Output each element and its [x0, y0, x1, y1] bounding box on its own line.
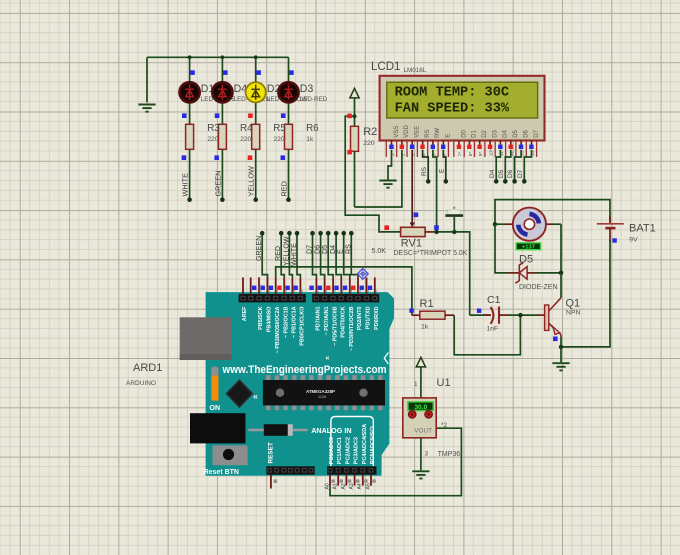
- svg-text:A1: A1: [333, 483, 339, 489]
- wire net RS to Arduino pin: [349, 231, 358, 278]
- svg-text:D4: D4: [489, 169, 496, 178]
- svg-text:PC5/ADC5/SCL: PC5/ADC5/SCL: [370, 424, 376, 464]
- net label D4 (Arduino side): [329, 245, 337, 254]
- white bracket around analog header: [331, 417, 373, 467]
- LED D4 LED-GREEN label: [234, 83, 271, 103]
- wire R2 bottom to VDD rail: [354, 151, 356, 207]
- svg-text:A5: A5: [365, 483, 371, 489]
- svg-text:ROOM TEMP: 30C: ROOM TEMP: 30C: [395, 85, 510, 101]
- svg-text:8*: 8*: [468, 152, 474, 157]
- pin stub top left x=292.4 9: [285, 277, 296, 294]
- net label RS (Arduino side): [344, 244, 352, 254]
- svg-text:10*: 10*: [489, 149, 495, 156]
- svg-text:LED-RED: LED-RED: [300, 96, 328, 103]
- analog pin stub A3: [349, 475, 359, 490]
- U1 pin3 wire to ground: [420, 438, 422, 471]
- pin stub top left x=243.0: [242, 277, 244, 294]
- LCD pin 13 D6: [519, 129, 530, 156]
- power jack: [190, 413, 246, 443]
- LCD pin 7 D0: [457, 129, 468, 156]
- wire net YELLOW to Arduino pin: [287, 231, 292, 278]
- svg-text:LM016L: LM016L: [404, 67, 427, 74]
- svg-text:U1: U1: [437, 377, 451, 389]
- svg-text:1k: 1k: [421, 323, 429, 330]
- svg-text:DIODE-ZEN: DIODE-ZEN: [519, 284, 558, 291]
- svg-text:5: 5: [332, 290, 338, 293]
- svg-text:RS: RS: [425, 129, 431, 137]
- svg-text:7: 7: [315, 290, 321, 293]
- logic marker below resistor R3: [182, 155, 187, 160]
- svg-text:D0: D0: [461, 129, 467, 137]
- LCD pin 14 D7: [529, 129, 540, 156]
- IC ATMEGA328P: [263, 375, 385, 410]
- wire R1 right to base node: [454, 315, 520, 355]
- wire LCD RS stub: [423, 150, 431, 184]
- pin stub top left x=275.7 11: [269, 277, 280, 294]
- logic marker below LED D3: [281, 113, 286, 118]
- power LED (orange): [211, 367, 218, 401]
- svg-text:Q1: Q1: [566, 298, 581, 310]
- svg-text:D5: D5: [519, 253, 533, 265]
- ARD1 labels: [126, 362, 162, 387]
- node D5 right junction: [559, 271, 564, 276]
- net label GREEN (Arduino side): [255, 236, 263, 261]
- svg-text:3: 3: [425, 451, 429, 458]
- black diamond decoration: [226, 380, 252, 407]
- ground-bar terminal above RV1 rail: [445, 207, 463, 232]
- svg-text:DESC=*TRIMPOT 5.0K: DESC=*TRIMPOT 5.0K: [394, 250, 468, 257]
- pin stub top left x=267.5 12: [261, 277, 272, 294]
- pin stub top left x=300.4 8: [293, 277, 304, 294]
- wire power node to RV1 left: [345, 116, 400, 232]
- net label D5 (Arduino side): [321, 245, 329, 254]
- node WHITE wire-end terminal: [187, 197, 192, 202]
- svg-text:PD7/AIN1: PD7/AIN1: [316, 307, 322, 331]
- svg-text:GREEN: GREEN: [255, 236, 263, 261]
- pin label PC2/ADC2: [345, 437, 351, 464]
- wire net E to Arduino pin: [341, 231, 349, 278]
- svg-text:VSS: VSS: [394, 126, 400, 138]
- pin stub top right x=358.0 2: [351, 277, 362, 294]
- svg-text:D3: D3: [492, 129, 498, 137]
- svg-text:RED: RED: [280, 181, 289, 196]
- Reset BTN label: [204, 469, 239, 476]
- net label WHITE (Arduino side): [290, 243, 298, 266]
- svg-text:PD0/RXD: PD0/RXD: [374, 306, 380, 329]
- wire net D7 to Arduino pin: [310, 231, 316, 278]
- LCD pin 11 D4: [498, 129, 509, 156]
- wire motor right riser: [560, 224, 562, 273]
- net label E (Arduino side): [337, 249, 345, 254]
- wire LCD D4 stub: [494, 150, 500, 184]
- svg-text:WHITE: WHITE: [181, 173, 190, 197]
- resistor R3 220: [186, 124, 194, 149]
- net label D6 (Arduino side): [314, 245, 322, 254]
- U1 pin2 label: [441, 422, 448, 429]
- pin stub top right x=349.8 3: [343, 277, 354, 294]
- pin header bottom-right (analog): [327, 466, 376, 474]
- svg-text:1126: 1126: [318, 395, 326, 399]
- svg-text:D7: D7: [517, 169, 524, 178]
- node junction power/R2/RV1: [353, 114, 357, 118]
- ground (top-left): [138, 57, 155, 111]
- logic marker battery: [612, 238, 616, 242]
- pin stub top right x=324.6 6: [318, 277, 329, 294]
- svg-text:ARDUINO: ARDUINO: [126, 380, 156, 387]
- RV1 labels: [372, 238, 468, 258]
- transistor Q1 NPN: [545, 298, 581, 338]
- svg-text:~ PD3/INT1/OC2B: ~ PD3/INT1/OC2B: [349, 306, 355, 351]
- wire net RED to Arduino pin: [279, 231, 284, 278]
- svg-text:«: «: [253, 391, 258, 401]
- LCD pin 2 VDD: [400, 124, 411, 156]
- svg-text:E: E: [446, 134, 452, 138]
- pin header top-left: [239, 294, 306, 302]
- svg-text:«: «: [326, 355, 330, 362]
- logic marker above LED D1: [190, 70, 195, 75]
- LED D3 LED-RED label: [300, 83, 328, 103]
- net label YELLOW (Arduino side): [282, 236, 290, 266]
- node RED wire-end terminal: [286, 197, 291, 202]
- ON label: [210, 405, 221, 412]
- pin label ~ PB2/OC1B: [283, 306, 289, 338]
- analog pin stub A0: [324, 475, 334, 490]
- svg-text:4: 4: [340, 290, 346, 293]
- svg-text:D5: D5: [498, 169, 505, 178]
- wire A0 to TMP36 pin2: [330, 428, 461, 496]
- analog pin stub A4: [357, 475, 367, 490]
- trimpot RV1 body: [401, 223, 426, 237]
- pin label ~ PD7/AIN1: [324, 307, 330, 336]
- labels for R4 and net GREEN: [213, 123, 253, 196]
- svg-text:E: E: [439, 168, 446, 173]
- pin label PD4/T0/XCK: [341, 306, 347, 337]
- logic marker below LED D2: [248, 113, 253, 118]
- labels for R6 and net RED: [280, 123, 320, 196]
- svg-text:GREEN: GREEN: [213, 171, 222, 197]
- wire LCD D6 stub: [512, 150, 521, 184]
- svg-text:PC2/ADC2: PC2/ADC2: [345, 437, 351, 464]
- pin header top-right: [312, 294, 379, 302]
- node junction on rail at YELLOW branch: [254, 55, 258, 59]
- LCD pin 6 E: [441, 134, 452, 157]
- pin stub top right x=374.8 0: [368, 277, 379, 294]
- node motor left junction: [493, 222, 497, 226]
- wire GREEN LED branch: [221, 57, 223, 199]
- svg-text:RESET: RESET: [267, 442, 274, 463]
- pin stub top left x=259.0 #13: [252, 277, 263, 294]
- svg-text:RS: RS: [421, 166, 428, 176]
- svg-text:D3: D3: [300, 83, 314, 95]
- svg-text:TMP36: TMP36: [438, 451, 461, 458]
- wire net D5 to Arduino pin: [326, 231, 333, 278]
- logic marker RV1 right: [434, 225, 439, 230]
- svg-text:VEE: VEE: [415, 126, 421, 138]
- svg-text:R4: R4: [240, 123, 253, 134]
- logic marker R2 bottom: [347, 150, 352, 155]
- wire motor leads: [495, 223, 561, 225]
- svg-text:PD1/TXD: PD1/TXD: [366, 306, 372, 329]
- LED D1 LED-WHITE label: [201, 83, 236, 103]
- pin stub top right x=333.1 5: [326, 277, 337, 294]
- svg-text:6: 6: [323, 290, 329, 293]
- svg-text:C1: C1: [487, 294, 501, 306]
- wire LCD VSS to ground: [388, 150, 392, 180]
- net label D7: [517, 169, 524, 178]
- svg-text:Reset BTN: Reset BTN: [204, 469, 239, 476]
- svg-text:~ PD7/AIN1: ~ PD7/AIN1: [324, 307, 330, 336]
- svg-text:PC0/ADC0: PC0/ADC0: [329, 437, 335, 464]
- LCD text line1 ROOM TEMP: 30C: [395, 85, 510, 101]
- svg-text:A4: A4: [357, 483, 363, 489]
- LED D3 LED-RED: [278, 82, 298, 102]
- pin label PD1/TXD: [366, 306, 372, 329]
- svg-text:0: 0: [373, 290, 379, 293]
- pin label AREF: [242, 306, 248, 321]
- svg-text:8: 8: [299, 290, 305, 293]
- logic marker RV1 wiper: [414, 213, 419, 218]
- wire net D6 to Arduino pin: [318, 231, 324, 278]
- ground (Q1 emitter): [552, 363, 569, 370]
- svg-text:*2: *2: [441, 422, 448, 429]
- pin label PB4/MISO: [267, 307, 273, 333]
- resistor R2 220: [351, 126, 378, 151]
- capacitor C1 1nF: [483, 294, 545, 333]
- wire emitter to ground: [560, 347, 562, 362]
- battery BAT1 9V: [597, 217, 656, 244]
- resistor R5 220: [252, 124, 260, 149]
- wire LCD D5 stub: [503, 150, 511, 184]
- svg-text:RV1: RV1: [401, 238, 422, 250]
- wire WHITE LED branch: [189, 57, 191, 199]
- analog pin stub A5: [365, 475, 375, 490]
- pin stub top left x=250.7: [250, 277, 252, 294]
- pin label PB0/CP1/CLKO: [300, 307, 306, 346]
- USB connector: [180, 317, 232, 360]
- ground (LCD VSS): [379, 181, 396, 188]
- pin label PC1/ADC1: [337, 437, 343, 464]
- svg-text:YELLOW: YELLOW: [247, 166, 256, 197]
- pin stub top right x=366.5 1: [360, 277, 371, 294]
- pin label PC0/ADC0: [329, 437, 335, 464]
- net label D6: [507, 169, 514, 178]
- resistor R6 1k: [285, 124, 293, 149]
- logic marker above LED D2: [256, 70, 261, 75]
- ground (TMP36): [412, 471, 429, 478]
- wire YELLOW LED branch: [255, 57, 257, 199]
- LCD pin 5 RW: [431, 128, 442, 157]
- LCD pin 10 D3: [488, 129, 499, 156]
- wire LCD VEE to RV1 wiper: [411, 150, 413, 223]
- svg-text:PC3/ADC3: PC3/ADC3: [354, 437, 360, 464]
- svg-text:D2: D2: [482, 129, 488, 137]
- LCD pin cell dividers: [386, 141, 536, 158]
- pin header bottom-left: [266, 466, 314, 474]
- wire top rail: [147, 56, 289, 58]
- Arduino ARD1 board: [206, 292, 394, 476]
- LED D4 LED-GREEN: [212, 82, 232, 102]
- chevron decoration mid: [326, 355, 330, 362]
- wire battery negative to emitter node: [561, 240, 610, 347]
- svg-text:220: 220: [207, 136, 218, 143]
- svg-text:D5: D5: [513, 129, 519, 137]
- net label D7 (Arduino side): [306, 245, 314, 254]
- logic marker above LED D3: [289, 70, 294, 75]
- logic marker emitter: [553, 337, 558, 342]
- diode D5 DIODE-ZEN: [507, 253, 561, 291]
- svg-text:PD4/T0/XCK: PD4/T0/XCK: [341, 306, 347, 337]
- LCD text line2 FAN SPEED: 33%: [395, 100, 510, 116]
- LCD pin 8 D1: [467, 129, 478, 156]
- logic marker below resistor R5: [248, 155, 253, 160]
- power arrow (TMP36 pin1): [416, 357, 425, 398]
- svg-text:D6: D6: [523, 129, 529, 137]
- net label E: [439, 168, 446, 173]
- reset button: [213, 445, 248, 465]
- svg-text:RW: RW: [435, 128, 441, 138]
- svg-text:1k: 1k: [306, 136, 314, 143]
- svg-text:R2: R2: [363, 126, 377, 138]
- svg-text:~ PB1/OC1A: ~ PB1/OC1A: [292, 306, 298, 338]
- svg-text:7*: 7*: [457, 152, 463, 157]
- LCD pin 12 D5: [509, 129, 520, 156]
- origin marker (blue diamond): [357, 268, 368, 279]
- wire motor top rail: [495, 200, 610, 225]
- wire RV1 rail to C1: [470, 314, 491, 316]
- svg-text:9V: 9V: [629, 236, 638, 243]
- logic marker above LED D4: [223, 70, 228, 75]
- svg-text:RED: RED: [274, 246, 282, 261]
- LCD pin 1 VSS: [389, 126, 400, 157]
- wire LCD E stub: [443, 150, 448, 184]
- www.TheEngineeringProjects.com: [222, 364, 387, 376]
- wire RV1 right rail: [425, 230, 470, 315]
- svg-text:2: 2: [356, 290, 362, 293]
- power terminal VCC arrow: [350, 88, 359, 116]
- svg-text:R1: R1: [420, 298, 434, 310]
- svg-text:PB0/CP1/CLKO: PB0/CP1/CLKO: [300, 307, 306, 346]
- sensor U1 TMP36 body: [403, 398, 436, 438]
- node YELLOW wire-end terminal: [253, 197, 258, 202]
- logic marker RV1 left wire: [384, 225, 389, 230]
- pin label ~ PB1/OC1A: [292, 306, 298, 338]
- wire LCD VDD to R2: [355, 150, 402, 207]
- wire net D4 to Arduino pin: [334, 231, 341, 278]
- labels for R3 and net WHITE: [181, 123, 221, 196]
- net label RED (Arduino side): [274, 246, 282, 261]
- wire RED LED branch: [288, 57, 290, 199]
- svg-text:30.0: 30.0: [414, 404, 427, 411]
- svg-text:PD2/INT0: PD2/INT0: [357, 307, 363, 331]
- svg-text:220: 220: [274, 136, 285, 143]
- net label D5: [498, 169, 505, 178]
- node base junction: [518, 313, 522, 317]
- pin label ~ PB3/MOSI/OC2A: [275, 306, 281, 353]
- pin stub top right x=341.3 4: [334, 277, 345, 294]
- LED D2 LED-YELLOW label: [267, 83, 308, 103]
- svg-text:FAN SPEED: 33%: FAN SPEED: 33%: [395, 100, 510, 116]
- LCD1 labels: [371, 61, 427, 74]
- motor (fan): [513, 208, 546, 241]
- wire net GREEN to Arduino pin: [260, 231, 268, 278]
- svg-text:9*: 9*: [478, 152, 484, 157]
- logic marker C1 left: [477, 309, 481, 313]
- svg-text:R6: R6: [306, 123, 319, 134]
- svg-text:www.TheEngineeringProjects.com: www.TheEngineeringProjects.com: [222, 364, 387, 376]
- LED D1 LED-WHITE: [180, 82, 200, 102]
- node GREEN wire-end terminal: [220, 197, 225, 202]
- node junction on rail at WHITE branch: [188, 55, 192, 59]
- pin stub top right x=316.4 7: [309, 277, 320, 294]
- svg-text:RS: RS: [344, 244, 352, 254]
- pin label PC3/ADC3: [354, 437, 360, 464]
- pin label PC5/ADC5/SCL: [370, 424, 376, 464]
- svg-text:1nF: 1nF: [487, 326, 499, 333]
- pin label PD0/RXD: [374, 306, 380, 329]
- LCD pin 9 D2: [477, 129, 488, 156]
- diode decoration on board: [248, 424, 307, 436]
- logic marker R2 top: [347, 114, 352, 119]
- svg-text:D7: D7: [534, 129, 540, 137]
- pin label ~ PD5/T1/OC0B: [332, 306, 338, 346]
- svg-text:ARD1: ARD1: [133, 362, 162, 374]
- net label D4: [489, 169, 496, 178]
- svg-text:R3: R3: [207, 123, 220, 134]
- svg-text:1: 1: [414, 381, 418, 388]
- svg-text:5.0K: 5.0K: [372, 248, 387, 255]
- svg-text:D7: D7: [306, 245, 314, 254]
- U1 pin1 number: [414, 381, 418, 388]
- svg-text:220: 220: [363, 140, 375, 147]
- svg-text:~ PB3/MOSI/OC2A: ~ PB3/MOSI/OC2A: [275, 306, 281, 353]
- chevron decoration right edge: [384, 353, 388, 364]
- svg-text:D6: D6: [507, 169, 514, 178]
- U1 pin3 number: [425, 451, 429, 458]
- RESET label: [267, 442, 274, 463]
- LED D2 LED-YELLOW: [246, 82, 266, 102]
- svg-text:9: 9: [291, 290, 297, 293]
- wire power node to R2: [354, 116, 356, 126]
- svg-text:R5: R5: [273, 123, 286, 134]
- node junction on rail at GREEN branch: [221, 55, 225, 59]
- wire PWM pin11 to R1: [276, 267, 412, 315]
- svg-text:LCD1: LCD1: [371, 61, 400, 73]
- logic marker below resistor R4: [214, 155, 219, 160]
- labels for R5 and net YELLOW: [247, 123, 287, 196]
- svg-text:A3: A3: [349, 483, 355, 489]
- analog pin stub A1: [333, 475, 343, 490]
- pin label PD2/INT0: [357, 307, 363, 331]
- resistor R1 1k: [412, 298, 454, 330]
- svg-text:1: 1: [365, 290, 371, 293]
- svg-text:NPN: NPN: [566, 310, 580, 317]
- svg-text:AREF: AREF: [242, 306, 248, 321]
- pin label PD7/AIN1: [316, 307, 322, 331]
- ANALOG IN label: [311, 426, 351, 435]
- wire net WHITE to Arduino pin: [295, 231, 301, 278]
- svg-text:PB5/SCK: PB5/SCK: [258, 306, 264, 329]
- svg-text:PB4/MISO: PB4/MISO: [267, 307, 273, 333]
- U1 labels: [437, 377, 461, 458]
- motor speed display +137: [516, 243, 540, 251]
- svg-text:PC4/ADC4/SDA: PC4/ADC4/SDA: [362, 424, 368, 464]
- wire LCD D7 stub: [522, 150, 532, 184]
- LCD pin 4 RS: [420, 129, 431, 156]
- LCD LM016L body: [380, 76, 545, 141]
- wire LCD RW to RV1 right: [433, 150, 437, 232]
- svg-text:D4: D4: [503, 129, 509, 137]
- svg-text:3: 3: [348, 290, 354, 293]
